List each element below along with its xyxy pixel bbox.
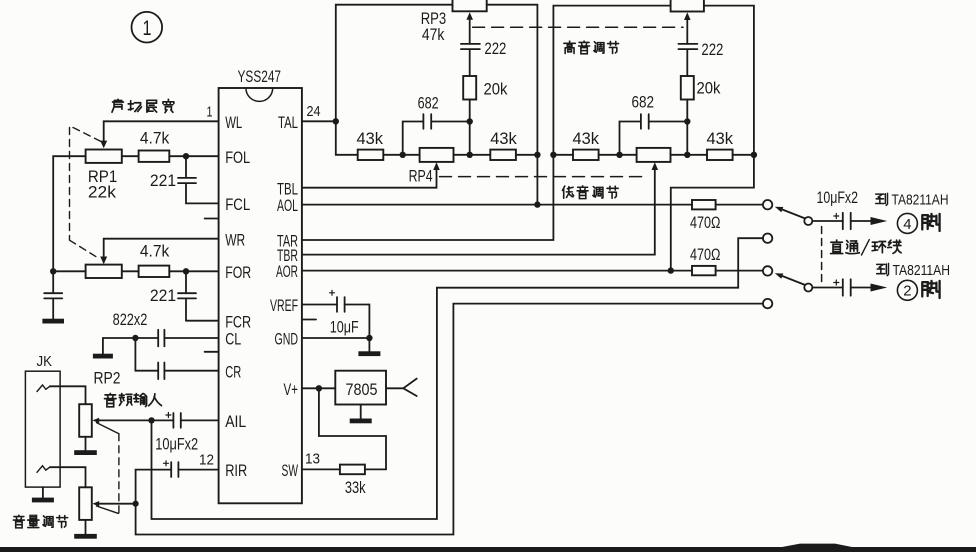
node CL junction dot bbox=[132, 335, 138, 341]
svg-text:SW: SW bbox=[282, 462, 299, 480]
wire cap to arrow lower bbox=[851, 287, 871, 289]
ground (JK) bbox=[32, 498, 54, 503]
wire jack2 to RP2b top bbox=[50, 467, 86, 487]
plus sign VREF cap bbox=[330, 290, 335, 295]
RP2a wiper arrowhead bbox=[92, 418, 99, 423]
wire FCR pin bbox=[186, 320, 219, 322]
label 高音调节 (treble adjust) bbox=[564, 41, 619, 54]
capacitor 222 (R) bbox=[678, 44, 697, 76]
wire 4.7k to FOR pin bbox=[169, 270, 218, 272]
ground stem GND bbox=[368, 338, 370, 351]
svg-text:YSS247: YSS247 bbox=[238, 68, 282, 86]
RP2 gang diagonal a bbox=[97, 423, 119, 434]
RP2 gang diagonal b bbox=[97, 506, 119, 513]
svg-text:TBL: TBL bbox=[277, 180, 298, 198]
resistor 43k L2 bbox=[490, 150, 516, 160]
switch arm 2 common circle bbox=[804, 284, 812, 292]
wire 43k L1 to RP4 bbox=[383, 154, 419, 156]
wire treble R right terminal to output node R bbox=[704, 6, 754, 155]
dashed link between switch arms bbox=[821, 227, 823, 284]
RP2b wiper arrowhead bbox=[92, 501, 99, 506]
switch arm 2 lever bbox=[781, 276, 805, 285]
jack contact upper bbox=[37, 385, 50, 392]
wire switch2 to output cap bbox=[812, 287, 842, 289]
capacitor 10uF VREF (electrolytic) bbox=[337, 297, 345, 312]
switch arm 1 lever bbox=[781, 209, 805, 218]
wire GND pin bbox=[302, 337, 370, 339]
wire output L node down to AOL line bbox=[536, 155, 538, 205]
terminal circle 4 (direct R) bbox=[763, 299, 772, 308]
wire V+ node loop to 33k bbox=[319, 388, 386, 469]
label 直通/环绕 (direct/surround) bbox=[831, 240, 902, 255]
svg-text:12: 12 bbox=[199, 453, 214, 469]
node output R junction dot bbox=[751, 152, 757, 158]
label circled-2 pin bbox=[897, 280, 939, 300]
figure number circle 1 bbox=[132, 12, 163, 43]
svg-text:4.7k: 4.7k bbox=[140, 243, 170, 261]
capacitor 822 (CL) bbox=[158, 330, 164, 347]
svg-text:222: 222 bbox=[701, 41, 723, 59]
svg-text:WL: WL bbox=[225, 114, 242, 132]
bass R wiper arrowhead bbox=[652, 162, 659, 170]
resistor 470ohm lower bbox=[692, 266, 716, 275]
wire bass R wiper to TBR pin bbox=[302, 169, 655, 254]
switch arm 2 arrowhead bbox=[775, 273, 784, 279]
switch arm 1 arrowhead bbox=[775, 207, 784, 213]
wire CL node to cap bbox=[103, 337, 158, 339]
RP2b bottom to ground bbox=[85, 520, 87, 534]
node row-RP3 junction dot bbox=[467, 152, 473, 158]
label 音量调节 (volume adjust) bbox=[13, 515, 67, 528]
dashed gang link treble RP3 bbox=[473, 26, 683, 28]
node row-trebleR junction dot bbox=[684, 152, 690, 158]
op-amp/processor IC U1 YSS247 body bbox=[219, 88, 302, 503]
wire bass R right to 43k R2 bbox=[671, 154, 708, 156]
potentiometer treble R (top cropped) bbox=[671, 0, 704, 12]
node FOR-left junction dot bbox=[50, 268, 56, 274]
svg-text:20k: 20k bbox=[697, 80, 722, 98]
label 低音调节 (bass adjust) bbox=[562, 185, 618, 198]
wire switch1 to output cap bbox=[812, 220, 842, 222]
resistor 470ohm upper bbox=[692, 200, 716, 209]
wire node to RP1b left bbox=[53, 270, 85, 272]
capacitor 10uF RIR (electrolytic) bbox=[171, 462, 178, 477]
svg-text:GND: GND bbox=[275, 331, 299, 349]
node TAL junction dot bbox=[333, 118, 339, 124]
ground (GND pin) bbox=[358, 351, 380, 356]
node output L junction dot bbox=[534, 152, 540, 158]
wire 43k L2 to output node bbox=[516, 154, 538, 156]
potentiometer RP3 (treble L, top cropped) bbox=[453, 0, 487, 11]
svg-text:682: 682 bbox=[632, 94, 655, 112]
node B junction dot bbox=[616, 152, 622, 158]
wire row R left bbox=[553, 154, 573, 156]
wire node up to RIR cap bbox=[136, 470, 172, 504]
svg-text:AIL: AIL bbox=[225, 413, 246, 431]
svg-text:43k: 43k bbox=[357, 130, 384, 148]
wire TAL node down to row bbox=[336, 121, 358, 155]
wire CL node down to CR line bbox=[135, 338, 158, 371]
wire 4.7k to FOL pin bbox=[169, 155, 218, 157]
capacitor at FOR-left node to ground bbox=[44, 271, 62, 318]
potentiometer RP1 section b bbox=[86, 265, 122, 278]
node FOR junction dot bbox=[183, 268, 189, 274]
connector JK box bbox=[25, 371, 60, 487]
wire FCL pin bbox=[186, 202, 219, 204]
capacitor 10uF output upper (electrolytic) bbox=[843, 213, 851, 229]
wire 20k R down to row bbox=[686, 100, 688, 155]
svg-text:VREF: VREF bbox=[270, 297, 298, 315]
wire V+ pin to 7805 bbox=[302, 387, 335, 389]
svg-text:1: 1 bbox=[143, 17, 152, 40]
wire AOR pin to 470 resistor bbox=[302, 270, 692, 272]
wire RP3 right terminal to output node bbox=[487, 5, 538, 155]
label 到 TA8211AH (lower) bbox=[877, 262, 950, 279]
svg-text:470Ω: 470Ω bbox=[690, 214, 721, 232]
output arrow lower to TA8211AH pin2 bbox=[871, 284, 888, 292]
wire WR pin to RP1b wiper bbox=[104, 239, 219, 258]
wire WL pin1 to RP1a wiper bbox=[104, 121, 219, 141]
svg-text:2: 2 bbox=[903, 283, 911, 300]
svg-text:822x2: 822x2 bbox=[113, 311, 148, 329]
node A junction dot bbox=[400, 152, 406, 158]
node TAR-row junction dot bbox=[550, 152, 556, 158]
wire RP1a left terminal down to FOR node bbox=[53, 156, 85, 271]
wire 43k R2 to output node R bbox=[733, 154, 754, 156]
RP4 wiper arrowhead bbox=[433, 162, 440, 170]
wire 470 to terminal 1 bbox=[716, 204, 763, 206]
svg-text:TA8211AH: TA8211AH bbox=[893, 262, 951, 279]
wire RP2a wiper to AIL node bbox=[99, 419, 174, 421]
wire 470 to terminal 3 bbox=[716, 270, 763, 272]
node AIL junction dot bbox=[148, 417, 154, 423]
svg-text:20k: 20k bbox=[484, 81, 509, 99]
ground (822 caps) bbox=[93, 354, 113, 359]
RP2a bottom to ground bbox=[85, 437, 87, 450]
svg-text:TAL: TAL bbox=[278, 114, 298, 132]
svg-text:43k: 43k bbox=[490, 130, 517, 148]
node 682L junction dot bbox=[467, 118, 473, 124]
svg-text:FOL: FOL bbox=[225, 149, 250, 167]
label 音频输入 (audio input) bbox=[104, 393, 161, 407]
wire AOL pin to 470 resistor bbox=[302, 204, 692, 206]
RP3 wiper arrowhead bbox=[466, 12, 473, 20]
capacitor 221 (lower) FOR to FCR bbox=[178, 271, 196, 320]
RP2 gang dashed link bbox=[118, 434, 120, 514]
terminal circle 3 (AOR processed) bbox=[763, 266, 772, 275]
svg-text:WR: WR bbox=[225, 231, 245, 249]
capacitor 10uF output lower (electrolytic) bbox=[843, 279, 851, 295]
potentiometer RP4 (bass L) bbox=[420, 148, 454, 162]
terminal circle 1 (AOL processed) bbox=[763, 200, 772, 209]
unconnected stub pin left (below FCL) bbox=[205, 218, 219, 220]
node GND junction dot bbox=[366, 335, 372, 341]
wire RP2b wiper to RIR node bbox=[99, 503, 136, 505]
svg-text:CR: CR bbox=[225, 363, 241, 381]
wire 7805 output with open arrow bbox=[386, 379, 417, 396]
ground stem 7805 bbox=[360, 405, 362, 419]
potentiometer RP2 section a bbox=[79, 404, 92, 437]
svg-text:470Ω: 470Ω bbox=[690, 246, 721, 264]
label circled-4 pin bbox=[897, 213, 939, 233]
plus sign AIL cap bbox=[166, 413, 171, 418]
potentiometer RP2 section b bbox=[79, 487, 92, 520]
JK sleeve to ground bbox=[42, 487, 44, 498]
resistor 20k (L) bbox=[463, 76, 476, 100]
resistor 33k bbox=[340, 465, 365, 475]
svg-text:682: 682 bbox=[418, 95, 439, 113]
svg-text:24: 24 bbox=[307, 104, 321, 120]
plus sign output cap upper bbox=[834, 214, 839, 219]
wire jack1 to RP2a top bbox=[50, 386, 86, 404]
svg-text:43k: 43k bbox=[707, 130, 734, 148]
svg-text:10μFx2: 10μFx2 bbox=[155, 435, 198, 453]
regulator 7805 bbox=[335, 371, 386, 405]
ground (RP2a) bbox=[74, 450, 97, 455]
wire cap to CL pin bbox=[164, 337, 218, 339]
gang dashed link RP1a-RP1b bbox=[70, 126, 101, 259]
svg-text:10μF: 10μF bbox=[330, 319, 359, 337]
node V+ junction dot bbox=[316, 385, 322, 391]
node AOR junction dot bbox=[668, 267, 674, 273]
svg-text:33k: 33k bbox=[345, 479, 366, 497]
wire RP1a right to 4.7k bbox=[122, 155, 139, 157]
svg-text:FCL: FCL bbox=[225, 196, 250, 214]
svg-text:RP2: RP2 bbox=[94, 370, 121, 388]
label 到 TA8211AH (upper) bbox=[876, 191, 949, 208]
bottom border thickening bbox=[782, 544, 852, 547]
capacitor 682 R bridging node B to treble R stem bbox=[620, 114, 688, 155]
output arrow upper to TA8211AH pin4 bbox=[871, 217, 888, 225]
node AOL junction dot bbox=[534, 201, 540, 207]
svg-text:4: 4 bbox=[903, 216, 911, 233]
svg-text:22k: 22k bbox=[88, 184, 117, 202]
svg-text:222: 222 bbox=[484, 40, 506, 58]
ground stem for CL/CR node bbox=[102, 338, 104, 354]
wire TAL node up and over to RP3 left bbox=[336, 5, 453, 122]
capacitor 10uF AIL (electrolytic) bbox=[173, 413, 180, 428]
svg-text:FCR: FCR bbox=[225, 313, 251, 331]
ground (7805) bbox=[350, 419, 372, 424]
wire terminal 4 return to RIR node bbox=[136, 304, 763, 535]
RP3 wiper stem bbox=[469, 19, 471, 44]
capacitor 682 L bridging node A to RP3 stem bbox=[403, 114, 470, 155]
wire VREF pin to cap bbox=[302, 304, 337, 306]
RP1a wiper arrowhead bbox=[100, 141, 107, 149]
ground (left cap) bbox=[42, 319, 64, 324]
svg-text:4.7k: 4.7k bbox=[140, 130, 170, 148]
svg-text:221: 221 bbox=[150, 287, 176, 305]
wire RP1b right to 4.7k lower bbox=[122, 270, 139, 272]
svg-text:TA8211AH: TA8211AH bbox=[892, 191, 949, 208]
wire 43k R1 to bass pot R bbox=[599, 154, 637, 156]
wire TAL pin 24 bbox=[302, 120, 336, 122]
resistor 43k L1 bbox=[358, 150, 384, 160]
wire terminal 2 return to AIL node bbox=[152, 238, 764, 519]
resistor 4.7k (upper) bbox=[139, 151, 170, 162]
svg-text:221: 221 bbox=[150, 172, 176, 190]
RP1b wiper arrowhead bbox=[100, 257, 107, 265]
bottom figure border bar bbox=[0, 547, 976, 552]
capacitor 222 (L) bbox=[461, 44, 480, 76]
unconnected stub pin left (below CL) bbox=[205, 351, 219, 353]
resistor 43k R1 bbox=[573, 150, 599, 160]
svg-text:FOR: FOR bbox=[225, 264, 251, 282]
wire RP4 right to 43k L2 bbox=[454, 154, 491, 156]
svg-text:CL: CL bbox=[225, 331, 241, 349]
plus sign output cap lower bbox=[834, 280, 839, 285]
unconnected stub pin right (below VREF) bbox=[302, 319, 316, 321]
svg-text:AOL: AOL bbox=[277, 197, 298, 215]
wire cap to AIL pin bbox=[181, 419, 219, 421]
resistor 43k R2 bbox=[707, 150, 733, 160]
wire 20k down to row bbox=[469, 100, 471, 155]
svg-text:43k: 43k bbox=[573, 130, 600, 148]
plus sign RIR cap bbox=[164, 461, 169, 466]
treble R wiper stem bbox=[686, 19, 688, 44]
wire cap to CR pin bbox=[164, 370, 218, 372]
wire 33k to SW pin bbox=[302, 468, 386, 470]
wire cap to RIR pin bbox=[178, 469, 218, 471]
treble R wiper arrowhead bbox=[684, 12, 691, 20]
potentiometer bass R bbox=[637, 148, 671, 162]
capacitor 221 (upper) FOL to FCL bbox=[178, 156, 196, 203]
svg-text:47k: 47k bbox=[422, 26, 445, 44]
svg-text:7805: 7805 bbox=[346, 380, 378, 399]
node 682R junction dot bbox=[684, 118, 690, 124]
svg-text:JK: JK bbox=[37, 354, 53, 370]
wire TAR pin up to right block bbox=[302, 6, 671, 240]
wire VREF cap down to GND line bbox=[345, 305, 370, 339]
svg-text:10μFx2: 10μFx2 bbox=[817, 189, 859, 207]
capacitor 822 (CR) bbox=[158, 363, 164, 380]
dashed gang link bass RP4 bbox=[440, 176, 645, 178]
resistor 4.7k (lower) bbox=[139, 266, 170, 277]
wire output R node down-left-down to AOR line bbox=[671, 155, 754, 271]
wire RP4 wiper to TBL pin bbox=[302, 169, 437, 188]
svg-text:1: 1 bbox=[207, 104, 213, 120]
potentiometer RP1 section a bbox=[86, 150, 122, 163]
jack contact lower bbox=[37, 466, 50, 473]
ground (RP2b) bbox=[74, 534, 97, 539]
node FOL junction dot bbox=[183, 153, 189, 159]
svg-text:AOR: AOR bbox=[276, 263, 298, 281]
label 声场展宽 (sound field expansion) bbox=[112, 99, 174, 113]
svg-text:V+: V+ bbox=[284, 381, 299, 399]
resistor 20k (R) bbox=[681, 76, 694, 100]
wire cap to arrow upper bbox=[851, 220, 871, 222]
switch arm 1 common circle bbox=[804, 217, 812, 225]
svg-text:13: 13 bbox=[305, 452, 320, 468]
terminal circle 2 (direct L) bbox=[763, 234, 772, 243]
svg-text:RP4: RP4 bbox=[409, 168, 433, 186]
node RIR input junction dot bbox=[133, 501, 139, 507]
svg-text:RIR: RIR bbox=[225, 462, 247, 480]
